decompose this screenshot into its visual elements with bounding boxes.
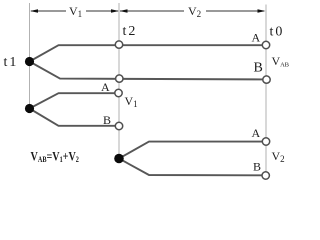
svg-text:A: A [101, 80, 110, 94]
svg-text:t1: t1 [4, 55, 19, 70]
svg-text:V2: V2 [188, 4, 201, 19]
svg-text:VAB=V1+V2: VAB=V1+V2 [31, 149, 80, 164]
svg-text:B: B [253, 160, 261, 174]
svg-text:A: A [252, 31, 261, 45]
svg-text:t0: t0 [270, 25, 285, 40]
svg-text:V2: V2 [272, 149, 285, 164]
svg-text:V1: V1 [125, 94, 138, 109]
svg-text:t2: t2 [123, 24, 138, 39]
svg-text:V1: V1 [69, 4, 82, 19]
svg-text:B: B [254, 61, 263, 76]
svg-text:B: B [103, 113, 111, 127]
svg-text:VAB: VAB [272, 54, 290, 69]
svg-text:A: A [252, 126, 261, 140]
